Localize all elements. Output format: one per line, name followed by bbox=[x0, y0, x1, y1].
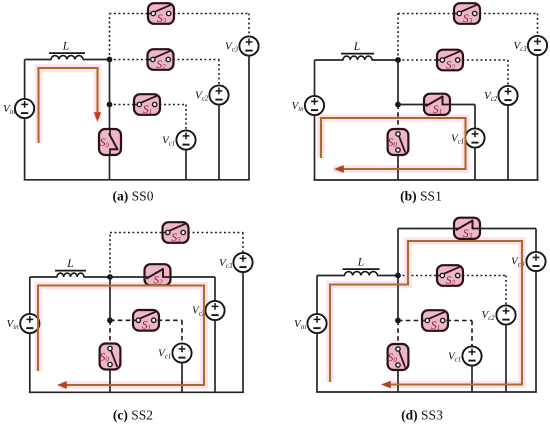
voltage source Vc2 (d) bbox=[496, 305, 515, 324]
wire dotted to S1 (a) bbox=[110, 104, 135, 106]
switch S3 open (c) bbox=[163, 222, 189, 244]
label L (c) bbox=[66, 258, 73, 270]
wire top right (b) bbox=[372, 59, 399, 61]
label L (b) bbox=[353, 41, 360, 53]
switch S1 closed (b) bbox=[424, 94, 450, 116]
wire left rail top (c) bbox=[29, 277, 31, 314]
node 2 (a) bbox=[107, 102, 113, 108]
switch S0 open (c) bbox=[100, 344, 121, 370]
voltage source Vc1 (d) bbox=[462, 346, 481, 365]
wire middle vertical (c) bbox=[109, 277, 111, 320]
wire Vc1 down (a) bbox=[185, 149, 187, 180]
wire dotted Vc2 drop (a) bbox=[218, 60, 220, 87]
voltage source Vc1 (a) bbox=[176, 130, 195, 149]
voltage source Vin (d) bbox=[307, 314, 326, 333]
wire dotted Vc1 drop (a) bbox=[185, 105, 187, 132]
caption (d) SS3 bbox=[401, 408, 443, 423]
wire bottom (a) bbox=[24, 179, 250, 181]
caption (c) SS2 bbox=[113, 408, 153, 423]
wire top right (d) bbox=[377, 275, 399, 277]
label Vc2 (d) bbox=[482, 309, 496, 322]
current-path halo (a) bbox=[39, 68, 98, 143]
wire Vc3 down (c) bbox=[242, 272, 244, 393]
switch S2 closed (c) bbox=[145, 264, 171, 286]
wire dotted to S3 (b) bbox=[398, 13, 455, 15]
label Vc1 (b) bbox=[451, 133, 464, 146]
switch S1 open (d) bbox=[422, 310, 448, 332]
switch S0 open (d) bbox=[388, 344, 409, 370]
current arrow (a) bbox=[94, 112, 101, 122]
wire dashed node2 to S0 (c) bbox=[109, 320, 111, 344]
current path (c) bbox=[38, 286, 204, 386]
voltage source Vc3 (d) bbox=[526, 252, 545, 271]
label Vin (b) bbox=[292, 100, 305, 113]
label Vin (d) bbox=[294, 318, 307, 331]
inductor L (a) bbox=[49, 53, 85, 59]
wire dotted to S2 (d) bbox=[398, 275, 438, 277]
wire Vc1 down (d) bbox=[471, 365, 473, 392]
switch S3 open (a) bbox=[148, 3, 174, 25]
label Vc3 (a) bbox=[225, 41, 239, 54]
wire top left (c) bbox=[30, 276, 58, 278]
label Vc3 (c) bbox=[219, 257, 233, 270]
switch S0 closed (a) bbox=[99, 129, 121, 155]
svg-text:(d) SS3: (d) SS3 bbox=[401, 408, 443, 423]
label L (d) bbox=[357, 256, 364, 268]
node 2 (b) bbox=[395, 102, 401, 108]
wire dotted Vc2 drop (b) bbox=[507, 60, 509, 87]
voltage source Vin (b) bbox=[305, 96, 324, 115]
wire Vc2 down (a) bbox=[218, 104, 220, 180]
wire dotted node1 up (c) bbox=[109, 233, 111, 278]
wire dotted to S2 (b) bbox=[398, 59, 438, 61]
wire Vc2 down (d) bbox=[505, 324, 507, 392]
label Vin (c) bbox=[7, 318, 20, 331]
current path (b) bbox=[321, 118, 466, 169]
voltage source Vc3 (b) bbox=[528, 36, 547, 55]
switch S2 open (a) bbox=[148, 49, 174, 71]
wire Vc3 drop (d) bbox=[535, 229, 537, 253]
wire Vc1 drop (b) bbox=[474, 105, 476, 130]
wire middle vertical (d) bbox=[397, 276, 399, 321]
wire top left (b) bbox=[315, 59, 344, 61]
wire Vc2 down (b) bbox=[507, 105, 509, 180]
current-path halo (c) bbox=[38, 286, 204, 386]
wire middle vertical (a) bbox=[109, 60, 111, 180]
node 1 (b) bbox=[395, 57, 401, 63]
label Vc3 (d) bbox=[511, 256, 525, 269]
switch S1 open (c) bbox=[133, 310, 159, 332]
svg-text:L: L bbox=[357, 256, 364, 268]
wire left rail top (b) bbox=[314, 60, 316, 96]
svg-text:(c) SS2: (c) SS2 bbox=[113, 408, 153, 423]
svg-text:L: L bbox=[353, 41, 360, 53]
label Vc1 (a) bbox=[162, 135, 175, 148]
wire dotted S3 to Vc3 col (c) bbox=[188, 232, 243, 234]
current path (a) bbox=[39, 68, 98, 143]
node 2 (c) bbox=[107, 317, 113, 323]
wire node2 to S1 (b) bbox=[398, 104, 425, 106]
wire dashed node2 to S0 (b) bbox=[397, 105, 399, 130]
wire dashed S1 to Vc1 col (c) bbox=[158, 319, 183, 321]
wire dotted Vc2 drop (d) bbox=[505, 276, 507, 307]
wire Vc2 down (c) bbox=[214, 320, 216, 393]
current-path halo (d) bbox=[330, 241, 522, 385]
wire S1 to Vc1 col (b) bbox=[450, 104, 476, 106]
wire left rail top (a) bbox=[24, 60, 26, 100]
label Vc1 (c) bbox=[158, 348, 171, 361]
wire bottom (b) bbox=[314, 179, 539, 181]
current-path halo (b) bbox=[321, 118, 466, 169]
wire top S3 left (d) bbox=[398, 228, 456, 230]
wire top left (a) bbox=[25, 59, 52, 61]
wire S2 to Vc2 col (c) bbox=[170, 276, 215, 278]
caption (b) SS1 bbox=[400, 189, 442, 204]
svg-text:(b) SS1: (b) SS1 bbox=[400, 189, 442, 204]
wire S3 to Vc3 col (d) bbox=[480, 228, 537, 230]
wire dotted node1 up (b) bbox=[397, 14, 399, 61]
switch S2 open (d) bbox=[437, 265, 463, 287]
wire dotted S3 to Vc3 col (b) bbox=[480, 13, 538, 15]
inductor L (b) bbox=[341, 54, 374, 60]
wire top right (c) bbox=[84, 276, 111, 278]
voltage source Vc2 (c) bbox=[205, 301, 224, 320]
wire dotted node1 up (a) bbox=[109, 14, 111, 60]
wire Vc3 down (a) bbox=[248, 55, 250, 180]
wire dotted S3 to Vc3 col (a) bbox=[174, 13, 250, 15]
wire left rail bottom (a) bbox=[24, 118, 26, 180]
wire dotted S2 to Vc2 col (a) bbox=[173, 59, 219, 61]
wire left rail top (d) bbox=[316, 276, 318, 315]
label Vc3 (b) bbox=[514, 40, 528, 53]
wire dashed node2 to S1 (c) bbox=[110, 319, 135, 321]
wire left rail bottom (c) bbox=[29, 333, 31, 393]
current arrow (d) bbox=[381, 381, 391, 389]
wire dotted Vc3 drop (c) bbox=[242, 233, 244, 254]
wire dotted Vc3 drop (a) bbox=[248, 14, 250, 38]
wire Vc3 down (b) bbox=[537, 55, 539, 180]
node 1 (c) bbox=[107, 274, 113, 280]
inductor L (d) bbox=[343, 269, 380, 275]
wire top right (a) bbox=[83, 59, 111, 61]
wire S0 to bottom (c) bbox=[109, 370, 111, 393]
wire dashed node2 to S0 (d) bbox=[397, 321, 399, 345]
wire top left (d) bbox=[317, 275, 345, 277]
wire Vc3 down (d) bbox=[535, 271, 537, 392]
label Vin (a) bbox=[3, 103, 16, 116]
inductor L (c) bbox=[55, 271, 86, 277]
wire dotted to S3 (a) bbox=[110, 13, 149, 15]
svg-text:L: L bbox=[66, 258, 73, 270]
switch S0 open (b) bbox=[388, 129, 409, 155]
node 2 (d) bbox=[395, 318, 401, 324]
wire dotted to S2 (a) bbox=[110, 59, 149, 61]
current path (d) bbox=[330, 241, 522, 385]
label Vc1 (d) bbox=[448, 351, 461, 364]
voltage source Vin (a) bbox=[15, 99, 34, 118]
switch S2 open (b) bbox=[437, 50, 463, 72]
wire node1 up (d) bbox=[397, 229, 399, 276]
voltage source Vc2 (b) bbox=[498, 86, 517, 105]
wire Vc1 down (b) bbox=[474, 147, 476, 180]
wire dotted S1 to Vc1 col (a) bbox=[160, 104, 187, 106]
wire dotted to S3 (c) bbox=[110, 232, 163, 234]
wire bottom (c) bbox=[29, 391, 244, 393]
voltage source Vc1 (c) bbox=[172, 343, 191, 362]
wire dashed Vc1 drop (c) bbox=[181, 320, 183, 344]
wire dotted Vc3 drop (b) bbox=[537, 14, 539, 37]
wire S0 to bottom (d) bbox=[397, 370, 399, 392]
wire node1 to S2 (c) bbox=[110, 276, 145, 278]
voltage source Vc1 (b) bbox=[465, 128, 484, 147]
label L (a) bbox=[62, 41, 69, 53]
wire Vc1 down (c) bbox=[181, 362, 183, 392]
svg-text:(a) SS0: (a) SS0 bbox=[113, 189, 154, 204]
label Vc2 (b) bbox=[484, 90, 498, 103]
wire dotted S2 to Vc2 col (b) bbox=[463, 59, 509, 61]
label Vc2 (c) bbox=[192, 305, 206, 318]
current arrow (c) bbox=[57, 381, 67, 389]
switch S1 open (a) bbox=[134, 94, 160, 116]
voltage source Vin (c) bbox=[20, 314, 39, 333]
node 1 (a) bbox=[107, 57, 113, 63]
voltage source Vc3 (c) bbox=[233, 253, 252, 272]
label Vc2 (a) bbox=[195, 90, 209, 103]
switch S3 closed (d) bbox=[454, 218, 480, 240]
wire middle vertical (b) bbox=[397, 60, 399, 105]
caption (a) SS0 bbox=[113, 189, 154, 204]
wire bottom (d) bbox=[316, 391, 537, 393]
voltage source Vc2 (a) bbox=[209, 85, 228, 104]
node 1 (d) bbox=[395, 273, 401, 279]
wire dashed node2 to S1 (d) bbox=[398, 320, 422, 322]
wire dashed S1 to Vc1 col (d) bbox=[447, 320, 473, 322]
switch S3 open (b) bbox=[454, 3, 480, 25]
wire dotted S2 to Vc2 col (d) bbox=[463, 275, 507, 277]
wire left rail bottom (b) bbox=[314, 115, 316, 180]
wire dashed Vc1 drop (d) bbox=[471, 321, 473, 348]
wire S0 to bottom (b) bbox=[397, 155, 399, 180]
svg-text:L: L bbox=[62, 41, 69, 53]
voltage source Vc3 (a) bbox=[239, 36, 258, 55]
current arrow (b) bbox=[334, 165, 344, 173]
wire Vc2 drop (c) bbox=[214, 277, 216, 302]
wire left rail bottom (d) bbox=[316, 333, 318, 392]
